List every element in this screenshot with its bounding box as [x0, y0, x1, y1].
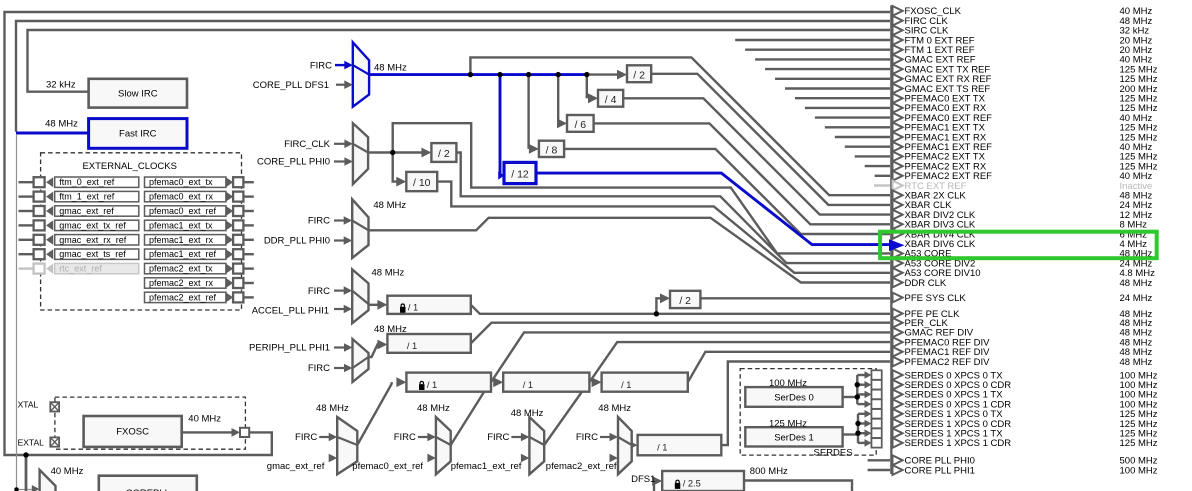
- svg-text:pfemac0_ext_ref: pfemac0_ext_ref: [352, 461, 423, 472]
- svg-text:pfemac2_ext_ref: pfemac2_ext_ref: [149, 292, 217, 302]
- svg-text:PFEMAC2 REF DIV: PFEMAC2 REF DIV: [905, 357, 991, 368]
- svg-text:48 MHz: 48 MHz: [1120, 357, 1153, 368]
- svg-text:/ 8: / 8: [546, 144, 558, 156]
- svg-text:EXTAL: EXTAL: [18, 438, 45, 448]
- svg-text:/ 1: / 1: [657, 443, 667, 453]
- svg-text:FIRC: FIRC: [308, 286, 330, 297]
- svg-text:pfemac1_ext_rx: pfemac1_ext_rx: [149, 235, 214, 245]
- svg-text:CORE_PLL PHI0: CORE_PLL PHI0: [257, 157, 330, 168]
- svg-text:ftm_1_ext_ref: ftm_1_ext_ref: [59, 192, 115, 202]
- svg-text:gmac_ext_rx_ref: gmac_ext_rx_ref: [59, 235, 127, 245]
- svg-text:48 MHz: 48 MHz: [45, 119, 78, 130]
- svg-text:24 MHz: 24 MHz: [1120, 293, 1153, 304]
- svg-text:48 MHz: 48 MHz: [373, 200, 406, 211]
- svg-text:ftm_0_ext_ref: ftm_0_ext_ref: [59, 177, 115, 187]
- svg-text:/ 1: / 1: [523, 380, 533, 390]
- svg-text:PFE SYS CLK: PFE SYS CLK: [905, 293, 967, 304]
- svg-text:pfemac2_ext_rx: pfemac2_ext_rx: [149, 278, 214, 288]
- svg-text:EXTERNAL_CLOCKS: EXTERNAL_CLOCKS: [82, 161, 177, 172]
- svg-text:125 MHz: 125 MHz: [1120, 438, 1158, 449]
- svg-text:pfemac1_ext_ref: pfemac1_ext_ref: [451, 461, 522, 472]
- svg-text:DDR_PLL PHI0: DDR_PLL PHI0: [264, 236, 330, 247]
- svg-text:/ 2.5: / 2.5: [683, 479, 701, 489]
- svg-text:/ 6: / 6: [574, 119, 586, 131]
- svg-text:XTAL: XTAL: [18, 400, 39, 410]
- svg-text:DFS1: DFS1: [631, 474, 655, 485]
- svg-text:FIRC_CLK: FIRC_CLK: [284, 139, 331, 150]
- svg-text:DDR CLK: DDR CLK: [905, 278, 947, 289]
- svg-text:gmac_ext_tx_ref: gmac_ext_tx_ref: [59, 220, 126, 230]
- svg-text:Slow IRC: Slow IRC: [118, 89, 158, 100]
- svg-text:SERDES 1 XPCS 1 CDR: SERDES 1 XPCS 1 CDR: [905, 438, 1012, 449]
- svg-text:48 MHz: 48 MHz: [511, 408, 544, 419]
- svg-text:/ 4: / 4: [605, 94, 617, 106]
- svg-text:48 MHz: 48 MHz: [316, 403, 349, 414]
- svg-text:rtc_ext_ref: rtc_ext_ref: [59, 264, 102, 274]
- svg-text:FIRC: FIRC: [576, 432, 598, 443]
- svg-text:gmac_ext_ref: gmac_ext_ref: [59, 206, 114, 216]
- svg-text:/ 2: / 2: [679, 295, 691, 307]
- svg-text:4 MHz: 4 MHz: [1120, 239, 1148, 250]
- svg-text:FIRC: FIRC: [308, 216, 330, 227]
- svg-text:100 MHz: 100 MHz: [769, 378, 807, 389]
- svg-text:SerDes 0: SerDes 0: [774, 393, 814, 404]
- svg-text:/ 1: / 1: [621, 380, 631, 390]
- svg-text:ACCEL_PLL PHI1: ACCEL_PLL PHI1: [252, 306, 329, 317]
- svg-text:FIRC: FIRC: [295, 432, 317, 443]
- svg-text:40 MHz: 40 MHz: [51, 466, 84, 477]
- svg-text:pfemac0_ext_tx: pfemac0_ext_tx: [149, 177, 213, 187]
- svg-text:/ 1: / 1: [427, 380, 437, 390]
- svg-text:100 MHz: 100 MHz: [1120, 465, 1158, 476]
- svg-text:FIRC: FIRC: [487, 432, 509, 443]
- svg-text:32 kHz: 32 kHz: [46, 79, 76, 90]
- svg-text:/ 10: / 10: [413, 177, 431, 189]
- svg-text:pfemac2_ext_ref: pfemac2_ext_ref: [546, 461, 617, 472]
- svg-text:FIRC: FIRC: [308, 363, 330, 374]
- svg-text:48 MHz: 48 MHz: [374, 62, 407, 73]
- svg-text:PERIPH_PLL PHI1: PERIPH_PLL PHI1: [249, 343, 330, 354]
- svg-text:gmac_ext_ref: gmac_ext_ref: [267, 461, 325, 472]
- svg-text:pfemac1_ext_tx: pfemac1_ext_tx: [149, 220, 213, 230]
- svg-text:gmac_ext_ts_ref: gmac_ext_ts_ref: [59, 249, 126, 259]
- svg-text:Fast IRC: Fast IRC: [119, 129, 157, 140]
- svg-text:/ 2: / 2: [438, 148, 450, 160]
- svg-text:pfemac1_ext_ref: pfemac1_ext_ref: [149, 249, 217, 259]
- svg-text:SERDES: SERDES: [814, 448, 853, 459]
- svg-text:FIRC: FIRC: [394, 432, 416, 443]
- svg-text:pfemac2_ext_tx: pfemac2_ext_tx: [149, 264, 213, 274]
- svg-text:48 MHz: 48 MHz: [598, 403, 631, 414]
- svg-text:pfemac0_ext_rx: pfemac0_ext_rx: [149, 192, 214, 202]
- svg-text:48 MHz: 48 MHz: [1120, 278, 1153, 289]
- svg-text:SerDes 1: SerDes 1: [774, 432, 814, 443]
- svg-text:/ 1: / 1: [408, 302, 418, 312]
- svg-text:/ 12: / 12: [511, 169, 529, 181]
- svg-text:800 MHz: 800 MHz: [750, 466, 788, 477]
- svg-text:CORE_PLL DFS1: CORE_PLL DFS1: [253, 80, 329, 91]
- svg-text:48 MHz: 48 MHz: [417, 403, 450, 414]
- svg-text:125 MHz: 125 MHz: [769, 418, 807, 429]
- svg-text:FIRC: FIRC: [310, 60, 332, 71]
- svg-text:XBAR DIV6 CLK: XBAR DIV6 CLK: [905, 239, 976, 250]
- svg-text:CORE PLL PHI1: CORE PLL PHI1: [905, 465, 975, 476]
- svg-text:FXOSC: FXOSC: [116, 427, 149, 438]
- svg-text:pfemac0_ext_ref: pfemac0_ext_ref: [149, 206, 217, 216]
- svg-text:48 MHz: 48 MHz: [372, 268, 405, 279]
- svg-text:40 MHz: 40 MHz: [188, 414, 221, 425]
- svg-text:/ 1: / 1: [407, 341, 417, 351]
- svg-text:/ 2: / 2: [633, 69, 645, 81]
